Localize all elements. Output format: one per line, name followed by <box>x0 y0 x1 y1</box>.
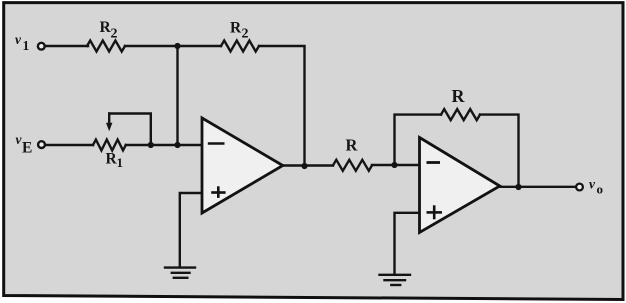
U2 plus sign <box>427 205 443 219</box>
wire U2 plus input <box>395 213 420 275</box>
resistor R2 (top-middle) <box>221 41 259 52</box>
svg-text:2: 2 <box>111 27 118 42</box>
junction U2 output node <box>515 184 521 190</box>
op-amp U1 <box>202 118 283 213</box>
wire node A down <box>176 46 178 145</box>
resistor R (feedback U2) <box>441 109 480 120</box>
wire R2a to node A <box>125 45 221 47</box>
svg-text:R: R <box>452 86 466 106</box>
wire R to op-amp U2 minus <box>372 164 420 166</box>
terminal vo <box>576 184 583 191</box>
terminal v1 <box>38 43 45 50</box>
svg-text:E: E <box>22 140 32 157</box>
op-amp U2 <box>420 138 500 233</box>
U2 minus sign <box>427 161 441 164</box>
junction U1 output node <box>301 163 307 169</box>
svg-text:1: 1 <box>117 155 124 170</box>
ground (U2) <box>380 275 411 285</box>
junction node A bottom <box>174 142 180 148</box>
potentiometer wiper arrow <box>108 114 110 125</box>
terminal vE <box>38 141 45 148</box>
svg-text:o: o <box>597 182 604 197</box>
junction wiper/wire <box>148 142 154 148</box>
U1 plus sign <box>211 186 225 198</box>
wire U1 output <box>283 164 333 166</box>
wire R1 to op-amp U1 minus <box>126 144 202 146</box>
feedback wire down to output <box>480 115 519 187</box>
svg-text:R: R <box>346 136 359 155</box>
ground (U1) <box>165 268 195 278</box>
junction node A (top) <box>174 43 180 49</box>
svg-text:2: 2 <box>242 27 249 42</box>
svg-text:R: R <box>230 20 242 37</box>
U1 minus sign <box>208 142 225 145</box>
resistor R1 (potentiometer body) <box>93 140 126 151</box>
wire vE to R1 <box>46 144 93 146</box>
wire v1 to R2a <box>46 45 88 47</box>
potentiometer wiper bracket <box>109 114 151 146</box>
wire U1 plus input <box>180 193 202 267</box>
junction U2 minus node <box>391 162 397 168</box>
svg-text:1: 1 <box>23 38 30 53</box>
wire R2b to corner <box>259 46 305 166</box>
wire U2 output <box>500 186 576 188</box>
svg-text:v: v <box>15 32 22 47</box>
feedback wire up <box>395 115 442 165</box>
svg-text:v: v <box>589 177 596 192</box>
resistor R2 (top-left) <box>87 41 125 52</box>
resistor R (interstage) <box>333 160 372 171</box>
